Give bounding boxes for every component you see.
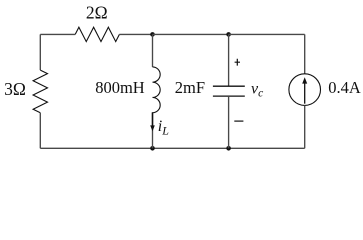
node B (top junction of capacitor branch) [226,32,231,37]
inductor L1 800mH coil [153,67,161,113]
wire capacitor branch top [228,34,230,86]
resistor 2Ω (zigzag) [75,27,119,41]
node C (bottom junction of inductor branch) [150,146,155,151]
wire bottom rail [40,147,304,149]
wire capacitor branch bottom [228,96,230,148]
wire inductor branch bottom [152,113,154,149]
svg-text:800mH: 800mH [95,78,145,97]
node A (top junction of inductor branch) [150,32,155,37]
wire resistor 2Ω to node A [119,33,152,35]
current arrow iL shaft [152,112,154,126]
wire top-left corner to resistor R1 [40,33,75,35]
current source I1 arrow shaft [304,83,306,104]
svg-text:3Ω: 3Ω [4,79,26,99]
svg-text:2mF: 2mF [175,78,205,97]
wire right branch upper [304,34,306,73]
capacitor C1 bottom plate [213,95,245,97]
svg-text:0.4A: 0.4A [328,78,361,97]
wire left side upper segment [39,34,41,70]
capacitor C1 top plate [213,85,245,87]
svg-text:iL: iL [158,118,169,137]
current arrow iL head [150,125,155,131]
wire node A to node B [153,33,229,35]
wire right branch lower [304,105,306,148]
node D (bottom junction of capacitor branch) [226,146,231,151]
current source I1 circle [289,74,321,106]
minus sign of vc [234,120,243,122]
resistor 3Ω (vertical zigzag) [33,70,47,113]
wire inductor branch top [152,34,154,67]
wire left side lower segment [39,113,41,149]
wire node B to top-right corner [229,33,305,35]
current source I1 arrow head [302,77,307,83]
svg-text:2Ω: 2Ω [86,3,108,23]
plus sign of vc [235,59,240,66]
svg-text:vc: vc [251,81,263,100]
